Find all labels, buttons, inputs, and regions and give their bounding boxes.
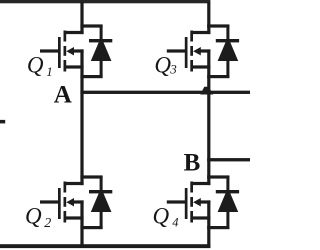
- body diode D3: [207, 24, 239, 78]
- wire node A to right edge: [80, 91, 250, 94]
- svg-text:2: 2: [44, 216, 51, 231]
- wire left leg middle (Q1 source through node A to Q2 drain): [80, 49, 83, 185]
- svg-text:Q: Q: [154, 52, 171, 77]
- wire node B to right edge: [207, 158, 250, 161]
- wire right leg middle (Q3 source through node B to Q4 drain): [207, 49, 210, 185]
- transistor Q2: [40, 182, 84, 223]
- transistor Q1: [40, 31, 84, 72]
- svg-text:Q: Q: [153, 203, 170, 228]
- wire top supply rail: [0, 0, 210, 3]
- label Q3: [154, 52, 177, 77]
- transistor Q4: [167, 182, 211, 223]
- body diode D4: [207, 175, 239, 229]
- label Q4: [153, 203, 179, 229]
- label Q1: [27, 52, 53, 79]
- wire right leg upper (top rail to Q3 drain): [207, 2, 210, 34]
- svg-text:Q: Q: [25, 204, 42, 229]
- svg-text:B: B: [184, 149, 201, 176]
- wire left leg lower (Q2 source to bottom rail): [80, 200, 83, 248]
- svg-text:4: 4: [172, 215, 178, 229]
- junction dot at node A wire crossing right leg: [200, 87, 213, 95]
- label Q2: [25, 204, 51, 232]
- wire right leg lower (Q4 source to bottom rail): [207, 200, 210, 248]
- wire left leg upper (top rail to Q1 drain): [80, 2, 83, 34]
- transistor Q3: [167, 31, 211, 72]
- svg-text:Q: Q: [27, 52, 44, 77]
- svg-text:3: 3: [169, 62, 177, 77]
- wire bottom return rail: [0, 244, 210, 248]
- svg-text:1: 1: [46, 64, 53, 79]
- body diode D1: [80, 24, 112, 78]
- svg-text:A: A: [54, 81, 72, 108]
- wire stub at left edge: [0, 120, 5, 124]
- body diode D2: [80, 175, 112, 229]
